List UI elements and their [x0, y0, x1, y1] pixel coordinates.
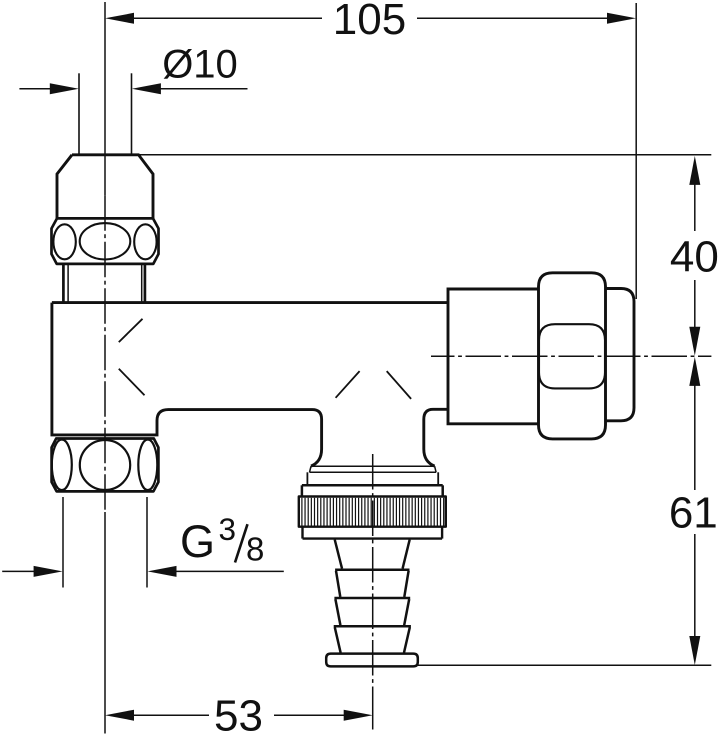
hose barb ring 4 [334, 626, 411, 652]
right fitting cylinder [448, 289, 539, 424]
svg-text:G: G [180, 516, 215, 567]
wire: centerline vertical outlet axis [372, 454, 374, 730]
dim 105 line [132, 17, 609, 19]
knurled ring of hose union nut [299, 497, 446, 527]
hose barb end cap [326, 654, 418, 667]
svg-text:40: 40 [670, 233, 719, 282]
hose barb ring 3 [334, 598, 410, 625]
nut N3 hex flat [539, 324, 605, 388]
dim 61 arrows [689, 357, 700, 386]
svg-text:Ø10: Ø10 [162, 43, 238, 87]
knurling hatch [302, 498, 444, 526]
machining mark lower-left [119, 369, 145, 395]
threaded neck below nut N1 [63, 264, 144, 303]
wire: centerline vertical left (inlet axis) [104, 2, 106, 734]
hose union nut shoulder [302, 485, 443, 496]
pipe: inlet tube 10mm [79, 73, 132, 154]
svg-text:8: 8 [246, 531, 264, 568]
dim Ø10 line [19, 88, 247, 90]
compression cap (trapezoid) of top fitting [57, 155, 153, 219]
outlet rim washer lines [310, 466, 437, 472]
dim 53 line [132, 714, 345, 716]
svg-text:105: 105 [333, 0, 406, 44]
dim 53 arrows [105, 710, 134, 721]
hose union nut upper collar [307, 472, 438, 484]
dim 61 line [694, 383, 696, 638]
hose barb ring 2 [335, 570, 409, 597]
lower band of hose union nut [303, 527, 443, 539]
hose barb neck segment 1 [335, 540, 410, 569]
machining mark middle-right stroke [387, 371, 411, 399]
svg-text:61: 61 [669, 489, 718, 538]
dim 40 arrows [689, 156, 700, 185]
dim G3/8 line [2, 570, 284, 572]
dim G3/8 arrows [34, 566, 63, 577]
svg-text:3: 3 [219, 511, 237, 547]
wire: extension line right (x=636) for dim 105 [635, 3, 637, 299]
dim 105 arrows [105, 13, 134, 24]
nut N3 (right union nut) [539, 273, 606, 439]
nut N2 (bottom-left swivel nut G3/8) [52, 439, 159, 492]
wire: extension line top (y=154) for dim 40 [139, 154, 712, 156]
nut N1 (top compression nut) [52, 218, 159, 264]
wire: extension line bottom (y=665) for dim 61 [418, 664, 711, 666]
wire: centerline horizontal right-fitting axis [431, 355, 711, 357]
wire: extension lines G3/8 [63, 497, 147, 588]
right end cap behind nut N3 [606, 289, 635, 421]
machining mark middle-left stroke [336, 371, 360, 398]
nut N2 hex faces [52, 440, 158, 491]
nut N1 hex faces (ellipses) [53, 223, 156, 259]
dim Ø10 arrows [50, 83, 79, 94]
valve body outline [52, 303, 448, 467]
svg-text:53: 53 [214, 692, 263, 734]
machining mark upper-left [119, 319, 143, 342]
dim 40 line [694, 182, 696, 329]
